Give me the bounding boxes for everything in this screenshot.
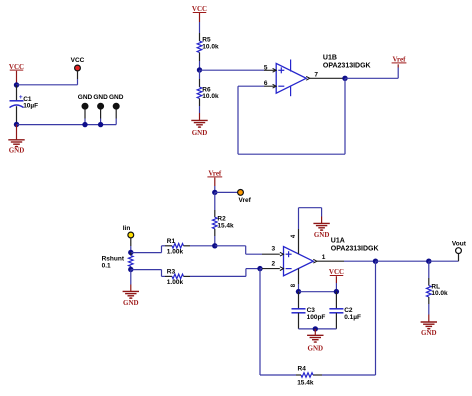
resistor R5 [197,22,219,70]
wire [16,83,18,86]
pin label 4 [291,234,297,238]
junction [82,122,87,127]
svg-text:C2: C2 [344,307,353,314]
ground [313,223,329,238]
pin label 2 [271,261,275,268]
junction [313,326,318,331]
svg-text:2: 2 [271,261,275,268]
net label VCC (R5) [192,5,207,22]
wire [200,69,277,71]
port Iin terminal [123,225,134,253]
svg-text:0.1µF: 0.1µF [344,314,361,321]
junction [296,289,301,294]
capacitor C2 [329,292,361,329]
wire feedback U1B [238,78,345,154]
svg-text:R2: R2 [217,215,226,222]
svg-text:VCC: VCC [71,57,85,64]
svg-text:5: 5 [264,64,268,71]
junction [334,289,339,294]
op-amp U1A [280,238,379,276]
wire [335,283,337,292]
junction [257,266,262,271]
port Vout terminal [452,241,467,254]
svg-text:Vref: Vref [393,56,407,64]
resistor R2 [213,192,235,245]
svg-text:15.4k: 15.4k [297,380,314,387]
op-amp U1B [264,54,371,96]
svg-text:R1: R1 [167,238,176,245]
svg-text:0.1: 0.1 [102,262,111,269]
pin 4 wire [299,208,322,254]
svg-text:GND: GND [314,231,330,239]
resistor Rshunt [102,253,134,270]
junction [128,250,133,255]
junction [128,267,133,272]
svg-text:3: 3 [271,245,275,252]
wire [215,246,280,254]
svg-text:Vref: Vref [239,197,252,204]
wire [310,77,345,79]
wire [17,84,78,86]
svg-text:1.00k: 1.00k [167,279,184,286]
svg-text:GND: GND [9,147,25,155]
net label Vref (R2) [207,170,222,186]
svg-text:1.00k: 1.00k [167,249,184,256]
wire feedback R4 [322,261,376,375]
svg-text:R4: R4 [298,365,307,372]
junction node [197,67,202,72]
svg-text:GND: GND [421,329,437,337]
svg-text:R3: R3 [167,268,176,275]
wire [345,64,398,78]
svg-text:15.4k: 15.4k [217,222,234,229]
svg-text:OPA2313IDGK: OPA2313IDGK [331,246,379,253]
resistor R1 [165,238,215,256]
wire [214,186,216,192]
junction [98,122,103,127]
resistor R3 [165,268,246,286]
pin label 3 [271,245,275,252]
wire [246,269,260,277]
wire [260,269,296,375]
svg-text:GND: GND [109,94,124,101]
wire [131,246,165,253]
ground [8,125,24,155]
net label Vref (U1B out) [392,56,407,64]
wire [131,270,165,277]
wire output U1A [317,260,376,262]
wire [215,191,238,193]
svg-text:U1A: U1A [331,238,345,245]
junction [14,82,19,87]
ground [191,113,207,137]
capacitor C1 [10,85,39,125]
ground [307,329,323,353]
junction [426,259,431,264]
pin 8 wire [298,268,300,291]
wire [299,328,337,330]
svg-text:7: 7 [314,72,318,79]
resistor RL [427,261,449,314]
svg-text:U1B: U1B [323,54,337,61]
junction [212,243,217,248]
svg-text:10µF: 10µF [23,102,38,109]
port GND terminal 1 [78,94,93,124]
net label VCC (C2) [329,268,344,283]
svg-text:GND: GND [123,299,139,307]
port GND terminal 2 [93,94,108,124]
svg-text:Vout: Vout [452,241,467,248]
svg-text:GND: GND [192,129,208,137]
net label VCC (top-left) [9,63,24,83]
wire [429,254,459,262]
svg-text:GND: GND [308,344,324,352]
wire [376,260,429,262]
resistor R4 [296,365,322,386]
port Vref terminal [238,190,252,204]
junction [212,190,217,195]
junction [342,76,347,81]
svg-text:Rshunt: Rshunt [102,255,125,262]
port VCC terminal [71,57,85,85]
pin label 8 [291,283,297,287]
ground [123,270,139,308]
svg-text:10.0k: 10.0k [202,43,219,50]
svg-text:GND: GND [93,94,108,101]
svg-text:OPA2313IDGK: OPA2313IDGK [323,63,371,70]
junction [14,122,19,127]
svg-text:1: 1 [322,254,326,261]
svg-text:10.0k: 10.0k [202,93,219,100]
svg-text:10.0k: 10.0k [431,290,448,297]
junction [373,259,378,264]
svg-text:GND: GND [78,94,93,101]
resistor R6 [197,70,219,113]
capacitor C3 [292,292,326,329]
ground [421,315,437,337]
svg-text:C3: C3 [307,307,316,314]
svg-text:100pF: 100pF [307,314,326,321]
wire [260,268,280,270]
wire [299,291,337,293]
wire [17,124,117,126]
svg-text:Iin: Iin [123,225,131,232]
port GND terminal 3 [109,94,124,124]
